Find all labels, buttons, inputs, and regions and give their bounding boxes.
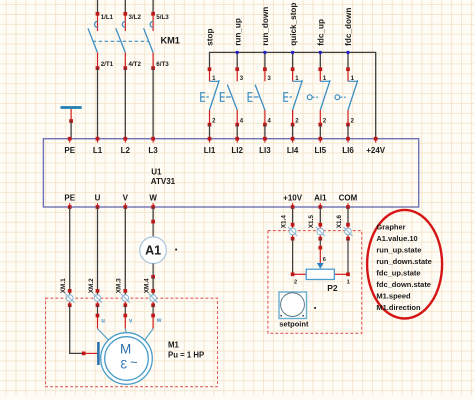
svg-text:2: 2 (294, 279, 297, 285)
svg-text:fdc_down.state: fdc_down.state (376, 280, 431, 289)
svg-text:X1.4: X1.4 (280, 215, 287, 229)
svg-text:fdc_up.state: fdc_up.state (376, 268, 420, 277)
svg-text:Pu = 1 HP: Pu = 1 HP (168, 350, 204, 359)
svg-text:LI4: LI4 (287, 146, 299, 155)
svg-text:3/L2: 3/L2 (129, 14, 142, 21)
svg-text:X1.5: X1.5 (308, 215, 315, 229)
svg-text:run_down.state: run_down.state (376, 257, 431, 266)
svg-text:6/T3: 6/T3 (156, 61, 169, 68)
svg-text:Grapher: Grapher (376, 222, 405, 231)
svg-text:M1: M1 (168, 341, 179, 350)
svg-text:X1.6: X1.6 (336, 215, 343, 229)
svg-text:stop: stop (206, 29, 215, 46)
svg-text:LI2: LI2 (231, 146, 243, 155)
svg-text:1: 1 (347, 279, 350, 285)
svg-text:L3: L3 (148, 146, 158, 155)
svg-text:run_up.state: run_up.state (376, 245, 421, 254)
svg-text:PE: PE (64, 146, 75, 155)
svg-text:AI1: AI1 (314, 193, 327, 202)
svg-text:4/T2: 4/T2 (129, 61, 142, 68)
svg-text:XM.2: XM.2 (88, 278, 95, 293)
svg-text:run_down: run_down (261, 7, 270, 46)
svg-text:V: V (123, 193, 129, 202)
svg-text:u: u (101, 319, 105, 325)
svg-text:~: ~ (130, 354, 138, 369)
svg-text:XM.4: XM.4 (144, 278, 151, 293)
svg-text:+10V: +10V (283, 193, 303, 202)
svg-text:quick_stop: quick_stop (289, 3, 298, 46)
svg-text:+24V: +24V (366, 146, 386, 155)
svg-text:LI3: LI3 (259, 146, 271, 155)
svg-text:M1.speed: M1.speed (376, 291, 411, 300)
svg-text:6: 6 (323, 257, 326, 263)
svg-text:L1: L1 (93, 146, 103, 155)
svg-text:5/L3: 5/L3 (156, 14, 169, 21)
svg-text:U: U (95, 193, 101, 202)
svg-text:A1: A1 (145, 244, 161, 258)
svg-text:XM.1: XM.1 (60, 278, 67, 293)
svg-text:KM1: KM1 (161, 36, 180, 46)
svg-text:U1: U1 (151, 167, 162, 176)
svg-text:3: 3 (120, 358, 127, 372)
svg-text:setpoint: setpoint (279, 320, 309, 329)
svg-text:ATV31: ATV31 (151, 177, 176, 186)
svg-text:1/L1: 1/L1 (101, 14, 114, 21)
svg-text:w: w (156, 318, 162, 324)
svg-text:L2: L2 (121, 146, 131, 155)
svg-text:PE: PE (64, 193, 75, 202)
svg-text:XM.3: XM.3 (116, 278, 123, 293)
svg-text:fdc_down: fdc_down (344, 8, 353, 46)
svg-text:P2: P2 (327, 283, 338, 293)
svg-text:M1.direction: M1.direction (376, 303, 421, 312)
svg-text:LI1: LI1 (204, 146, 216, 155)
svg-text:LI5: LI5 (315, 146, 327, 155)
svg-text:2/T1: 2/T1 (101, 61, 114, 68)
svg-text:A1.value.10: A1.value.10 (376, 234, 417, 243)
svg-text:COM: COM (339, 193, 358, 202)
svg-text:W: W (149, 193, 157, 202)
svg-text:LI6: LI6 (342, 146, 354, 155)
svg-text:fdc_up: fdc_up (317, 19, 326, 46)
svg-text:run_up: run_up (233, 18, 242, 46)
